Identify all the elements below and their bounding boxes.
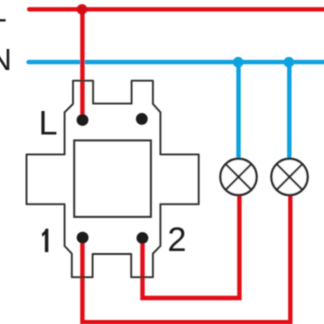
- switch S1 rocker square: [74, 140, 151, 217]
- node: N junction at lamp E1 drop: [233, 57, 244, 68]
- wire: terminal 1 to lamp E2 (red): [82, 193, 290, 322]
- wire: L drop from bus to switch terminal L: [80, 9, 84, 117]
- wire: phase L bus (red horizontal): [29, 7, 324, 11]
- svg-text:2: 2: [168, 221, 187, 259]
- svg-text:L: L: [39, 104, 58, 142]
- pin label 1 (drawn as path, Arial-style without foot serif): [42, 229, 48, 253]
- terminal 1 (bottom left): [77, 232, 89, 244]
- terminal 2 (bottom right): [137, 232, 149, 244]
- node: N junction at lamp E2 drop: [284, 57, 295, 68]
- wire: terminal 2 to lamp E1 (red): [143, 193, 240, 298]
- lamp E2: [271, 159, 307, 195]
- node: junction on L bus: [77, 4, 88, 15]
- wire: neutral N bus (blue horizontal): [29, 60, 324, 64]
- wire: N drop to lamp E2: [287, 62, 291, 162]
- wire: N drop to lamp E1: [236, 62, 240, 162]
- svg-text:N: N: [0, 42, 12, 77]
- terminal top right: [136, 113, 148, 125]
- lamp E1: [220, 159, 256, 195]
- terminal L (top left): [77, 114, 89, 126]
- svg-text:L: L: [0, 0, 7, 28]
- switch S1 body outline: [27, 81, 199, 278]
